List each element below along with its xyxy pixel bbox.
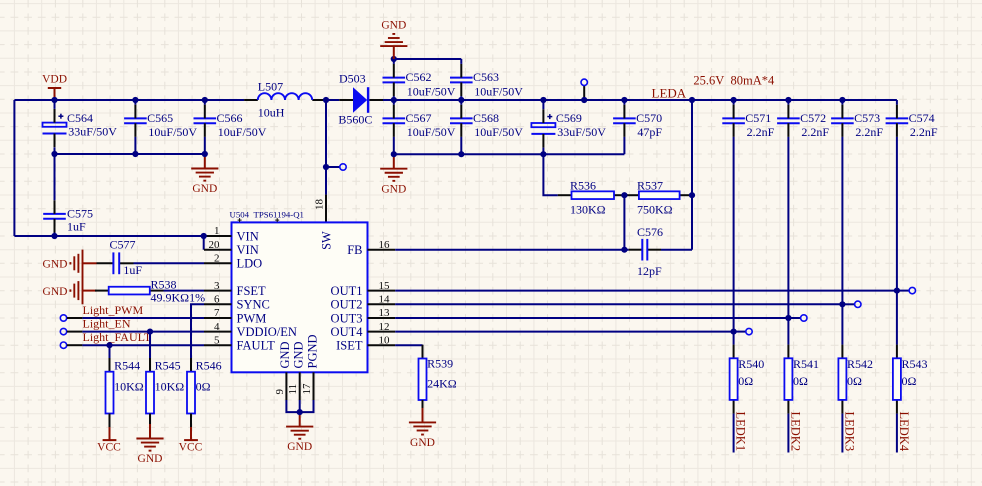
port circle Light_FAULT — [60, 342, 66, 348]
capacitor C570 — [613, 105, 662, 140]
capacitor C569 (polarized) — [531, 109, 606, 147]
wire R542 bottom — [841, 414, 843, 453]
svg-text:49.9KΩ1%: 49.9KΩ1% — [151, 291, 206, 305]
svg-text:10: 10 — [379, 334, 391, 346]
ground — [136, 424, 163, 465]
svg-text:0Ω: 0Ω — [793, 374, 808, 388]
resistor R541 — [784, 345, 819, 414]
power port GND — [43, 277, 97, 304]
wire R545 to GND — [149, 414, 151, 425]
svg-text:PGND: PGND — [305, 334, 319, 368]
svg-text:0Ω: 0Ω — [738, 374, 753, 388]
svg-text:10uF/50V: 10uF/50V — [218, 125, 267, 139]
capacitor C565 — [124, 105, 197, 140]
wire C569 stems — [542, 100, 544, 109]
wire C565 stems — [134, 100, 136, 105]
resistor R539 — [419, 345, 457, 414]
junction — [323, 164, 329, 170]
power port VCC — [179, 427, 203, 453]
svg-text:16: 16 — [379, 239, 391, 251]
svg-text:FSET: FSET — [237, 284, 267, 298]
svg-text:FAULT: FAULT — [237, 339, 276, 353]
wire R541 bottom — [787, 414, 789, 453]
svg-text:ISET: ISET — [336, 339, 363, 353]
svg-text:10uH: 10uH — [258, 106, 285, 120]
svg-text:VDD: VDD — [42, 74, 67, 86]
junction — [106, 342, 112, 348]
junction — [202, 151, 208, 157]
junction — [51, 151, 57, 157]
svg-text:U504 TPS61194-Q1: U504 TPS61194-Q1 — [230, 210, 304, 220]
svg-text:OUT4: OUT4 — [331, 325, 364, 339]
capacitor C576 — [629, 225, 663, 278]
junction — [621, 97, 627, 103]
svg-text:10KΩ: 10KΩ — [114, 380, 144, 394]
capacitor C577 — [97, 237, 143, 276]
svg-text:GND: GND — [43, 259, 68, 271]
svg-text:LEDK2: LEDK2 — [788, 412, 802, 452]
wire C575 stems — [54, 154, 56, 200]
svg-text:VIN: VIN — [237, 243, 259, 257]
svg-text:GND: GND — [381, 183, 406, 195]
svg-text:GND: GND — [138, 453, 163, 465]
pin 9 GND — [274, 341, 292, 400]
wire C572 column to R541 — [787, 137, 789, 345]
wire C571 column top — [733, 100, 735, 105]
resistor R542 — [838, 345, 873, 414]
svg-text:R544: R544 — [114, 358, 140, 372]
wire pin1-pin20 jog — [203, 236, 205, 250]
svg-text:24KΩ: 24KΩ — [427, 377, 457, 391]
svg-text:R537: R537 — [637, 179, 663, 193]
junction — [621, 192, 627, 198]
svg-text:0Ω: 0Ω — [196, 380, 211, 394]
svg-text:1: 1 — [214, 225, 220, 237]
svg-text:R546: R546 — [196, 358, 222, 372]
svg-text:130KΩ: 130KΩ — [570, 203, 606, 217]
svg-text:Light_EN: Light_EN — [83, 317, 131, 331]
pin 15 OUT1 — [331, 280, 396, 298]
svg-text:0Ω: 0Ω — [902, 374, 917, 388]
svg-text:33uF/50V: 33uF/50V — [557, 125, 606, 139]
pin 13 OUT3 — [331, 307, 396, 325]
capacitor C564 (polarized) — [43, 109, 118, 147]
wire left loop bottom to pin1 — [14, 235, 203, 237]
svg-text:C568: C568 — [473, 111, 499, 125]
capacitor C566 — [194, 105, 267, 140]
capacitor C572 — [777, 105, 829, 140]
wire R536 left leg — [543, 154, 557, 195]
junction — [540, 151, 546, 157]
svg-text:OUT3: OUT3 — [331, 311, 363, 325]
wire C563 stems — [460, 59, 462, 64]
wire C564 bottom — [54, 147, 56, 154]
svg-text:PWM: PWM — [237, 311, 267, 325]
wire C573 column top — [841, 100, 843, 105]
svg-text:2.2nF: 2.2nF — [801, 125, 829, 139]
svg-text:17: 17 — [301, 383, 313, 395]
svg-text:6: 6 — [214, 294, 220, 306]
wire SYNC to R546 — [191, 304, 204, 358]
diode D503 — [338, 71, 383, 126]
wire FB net — [395, 249, 629, 251]
svg-text:12pF: 12pF — [637, 264, 662, 278]
svg-text:9: 9 — [274, 389, 286, 395]
wire R545 to Light_EN — [149, 332, 151, 358]
svg-text:R539: R539 — [427, 357, 453, 371]
svg-text:C562: C562 — [406, 70, 432, 84]
svg-text:B560C: B560C — [338, 112, 372, 126]
pin 6 SYNC — [204, 294, 270, 312]
svg-text:2.2nF: 2.2nF — [910, 125, 938, 139]
IC U504 TPS61194-Q1 — [230, 210, 368, 373]
wire C570 stems — [623, 100, 625, 105]
wire R539 to GND — [422, 400, 424, 408]
wire C572 column top — [787, 100, 789, 105]
svg-text:LDO: LDO — [237, 257, 263, 271]
svg-text:20: 20 — [209, 239, 221, 251]
wire GND rail left — [55, 153, 205, 155]
svg-text:2.2nF: 2.2nF — [855, 125, 883, 139]
wire C562-C563 top tie — [394, 58, 462, 60]
svg-text:Light_FAULT: Light_FAULT — [83, 330, 152, 344]
wire FB node vertical — [623, 195, 625, 250]
svg-text:GND: GND — [287, 441, 312, 453]
wire C566 stems — [204, 100, 206, 105]
wire LEDA to R537 vertical — [691, 100, 693, 195]
junction — [839, 301, 845, 307]
svg-text:GND: GND — [410, 437, 435, 449]
power port GND — [43, 250, 97, 277]
svg-text:VIN: VIN — [237, 229, 259, 243]
junction — [323, 97, 329, 103]
wire R544 to Light_FAULT — [109, 345, 111, 358]
svg-text:10uF/50V: 10uF/50V — [474, 125, 523, 139]
svg-text:7: 7 — [214, 307, 220, 319]
svg-text:3: 3 — [214, 280, 220, 292]
wire output node rail — [394, 99, 897, 101]
wire OUT3 testpoint stub — [788, 317, 800, 319]
pin 16 FB — [347, 239, 395, 257]
wire SW testpoint stub — [326, 166, 340, 168]
svg-text:10uF/50V: 10uF/50V — [148, 125, 197, 139]
junction — [839, 97, 845, 103]
junction — [147, 329, 153, 335]
svg-text:C566: C566 — [217, 111, 243, 125]
svg-text:10uF/50V: 10uF/50V — [474, 84, 523, 98]
capacitor C562 — [383, 64, 456, 99]
svg-text:C576: C576 — [637, 225, 663, 239]
pin 7 PWM — [204, 307, 266, 325]
wire C567 stems — [393, 100, 395, 105]
resistor R543 — [893, 345, 928, 414]
wire OUT2 testpoint stub — [842, 303, 854, 305]
capacitor C573 — [831, 105, 883, 140]
wire left loop vertical — [13, 100, 15, 236]
junction — [540, 97, 546, 103]
pin 5 FAULT — [204, 334, 275, 352]
wire OUT1 testpoint stub — [897, 290, 909, 292]
pin 14 OUT2 — [331, 294, 396, 312]
svg-text:C564: C564 — [67, 111, 93, 125]
junction — [391, 97, 397, 103]
wire D503 to C562 node — [383, 99, 394, 101]
wire GND rail mid — [394, 153, 625, 155]
svg-text:25.6V 80mA*4: 25.6V 80mA*4 — [693, 74, 775, 88]
junction — [132, 97, 138, 103]
junction — [785, 97, 791, 103]
junction — [731, 97, 737, 103]
junction — [689, 97, 695, 103]
pin 17 PGND — [301, 334, 319, 400]
svg-text:11: 11 — [287, 384, 299, 395]
junction — [391, 151, 397, 157]
wire OUT4 testpoint stub — [734, 331, 746, 333]
svg-text:12: 12 — [379, 321, 390, 333]
svg-text:18: 18 — [314, 199, 326, 211]
resistor R537 — [625, 191, 693, 199]
wire R540 bottom — [733, 414, 735, 453]
svg-text:2: 2 — [214, 253, 220, 265]
wire Light_EN — [67, 331, 83, 333]
svg-text:LEDK3: LEDK3 — [842, 412, 856, 452]
power port VCC — [97, 427, 121, 453]
capacitor C567 — [383, 105, 456, 140]
junction — [621, 247, 627, 253]
pin 1 VIN — [204, 225, 259, 243]
wire R543 bottom — [896, 414, 898, 453]
junction — [458, 97, 464, 103]
capacitor C575 — [43, 200, 93, 233]
svg-text:14: 14 — [379, 294, 391, 306]
svg-text:C575: C575 — [67, 206, 93, 220]
svg-text:R545: R545 — [155, 358, 181, 372]
capacitor C563 — [450, 64, 523, 99]
wire C576 right to LEDA column — [661, 249, 692, 251]
svg-text:Light_PWM: Light_PWM — [83, 303, 144, 317]
svg-text:C567: C567 — [406, 111, 432, 125]
resistor R545 — [146, 358, 184, 427]
svg-text:R540: R540 — [738, 357, 764, 371]
svg-text:VDDIO/EN: VDDIO/EN — [237, 325, 297, 339]
ground — [191, 154, 218, 195]
wire C574 column to R543 — [896, 137, 898, 345]
ground — [409, 408, 436, 449]
svg-text:R541: R541 — [793, 357, 819, 371]
svg-text:C570: C570 — [636, 111, 662, 125]
pin 11 GND — [287, 341, 306, 400]
svg-text:C574: C574 — [909, 111, 935, 125]
junction — [202, 97, 208, 103]
svg-text:15: 15 — [379, 280, 391, 292]
svg-text:C573: C573 — [854, 111, 880, 125]
junction — [731, 329, 737, 335]
wire OUT4 — [395, 331, 733, 333]
pin 20 VIN — [204, 239, 259, 257]
svg-text:2.2nF: 2.2nF — [747, 125, 775, 139]
wire C564 stem — [54, 100, 56, 109]
wire C573 column to R542 — [841, 137, 843, 345]
wire C574 column top — [896, 100, 898, 105]
svg-text:R543: R543 — [902, 357, 928, 371]
wire R538 to FSET — [164, 290, 205, 292]
svg-text:1uF: 1uF — [123, 263, 142, 277]
resistor R536 — [558, 191, 628, 199]
junction — [297, 409, 303, 415]
svg-text:0Ω: 0Ω — [847, 374, 862, 388]
junction — [689, 192, 695, 198]
svg-text:VCC: VCC — [179, 441, 203, 453]
svg-text:C577: C577 — [110, 237, 136, 251]
junction — [391, 56, 397, 62]
svg-text:LEDA: LEDA — [652, 86, 687, 101]
wire Light_PWM — [67, 317, 83, 319]
svg-text:C572: C572 — [800, 111, 826, 125]
wire ISET to R539 — [395, 344, 422, 346]
svg-text:LEDK4: LEDK4 — [897, 412, 911, 452]
resistor R540 — [730, 345, 765, 414]
resistor R544 — [106, 358, 144, 427]
svg-text:10uF/50V: 10uF/50V — [407, 125, 456, 139]
pin 2 LDO — [204, 253, 262, 271]
junction — [581, 97, 587, 103]
junction — [458, 151, 464, 157]
svg-text:D503: D503 — [339, 71, 366, 85]
svg-text:OUT1: OUT1 — [331, 284, 363, 298]
svg-text:GND: GND — [292, 341, 306, 368]
svg-text:GND: GND — [43, 286, 68, 298]
svg-text:GND: GND — [278, 341, 292, 368]
wire L507 to D503 — [326, 99, 339, 101]
svg-text:4: 4 — [214, 321, 220, 333]
junction — [785, 315, 791, 321]
pin 10 ISET — [336, 334, 395, 352]
wire R546 to VCC — [190, 414, 192, 428]
wire OUT3 — [395, 317, 788, 319]
capacitor C571 — [722, 105, 774, 140]
junction — [51, 97, 57, 103]
ground — [380, 154, 407, 195]
junction — [201, 233, 207, 239]
svg-text:GND: GND — [192, 183, 217, 195]
wire SW node vertical — [325, 100, 327, 195]
capacitor C574 — [886, 105, 938, 140]
port circle Light_EN — [60, 328, 66, 334]
ground — [286, 412, 313, 453]
svg-text:LEDK1: LEDK1 — [734, 412, 748, 452]
node SW testpoint stub — [583, 86, 585, 100]
svg-text:47pF: 47pF — [637, 125, 662, 139]
wire VIN top rail — [14, 99, 244, 101]
svg-text:FB: FB — [347, 243, 362, 257]
svg-text:R536: R536 — [570, 179, 596, 193]
pin 4 VDDIO/EN — [204, 321, 297, 339]
svg-text:VCC: VCC — [97, 441, 121, 453]
svg-text:C563: C563 — [473, 70, 499, 84]
resistor R546 — [187, 358, 222, 427]
junction — [51, 233, 57, 239]
svg-text:SYNC: SYNC — [237, 298, 270, 312]
junction — [132, 151, 138, 157]
wire OUT1 — [395, 290, 897, 292]
svg-text:5: 5 — [214, 334, 220, 346]
wire R544 to VCC — [109, 414, 111, 428]
wire C577 to LDO — [134, 262, 205, 264]
wire C562 stems — [393, 59, 395, 64]
wire C571 column to R540 — [733, 137, 735, 345]
capacitor C568 — [450, 105, 523, 140]
svg-text:C571: C571 — [745, 111, 771, 125]
svg-text:GND: GND — [381, 20, 406, 32]
pin 18 SW stub — [325, 195, 327, 223]
junction — [894, 288, 900, 294]
svg-text:SW: SW — [320, 231, 334, 250]
resistor R538 — [95, 277, 205, 304]
wire Light_FAULT — [67, 344, 83, 346]
svg-text:R542: R542 — [847, 357, 873, 371]
power port VDD — [42, 74, 67, 101]
svg-text:750KΩ: 750KΩ — [637, 203, 673, 217]
svg-text:C565: C565 — [147, 111, 173, 125]
svg-text:OUT2: OUT2 — [331, 298, 363, 312]
svg-text:13: 13 — [379, 307, 391, 319]
pin 3 FSET — [204, 280, 266, 298]
wire IC ground tie — [286, 400, 313, 412]
svg-text:C569: C569 — [556, 111, 582, 125]
ground — [380, 20, 407, 60]
svg-text:10uF/50V: 10uF/50V — [407, 84, 456, 98]
svg-text:33uF/50V: 33uF/50V — [68, 124, 117, 138]
svg-text:10KΩ: 10KΩ — [155, 380, 185, 394]
svg-text:R538: R538 — [151, 277, 177, 291]
port circle Light_PWM — [60, 315, 66, 321]
wire C568 stems — [460, 100, 462, 105]
wire OUT2 — [395, 303, 842, 305]
inductor L507 — [244, 79, 326, 119]
svg-text:L507: L507 — [258, 79, 283, 93]
svg-text:1uF: 1uF — [67, 219, 86, 233]
pin 12 OUT4 — [331, 321, 396, 339]
